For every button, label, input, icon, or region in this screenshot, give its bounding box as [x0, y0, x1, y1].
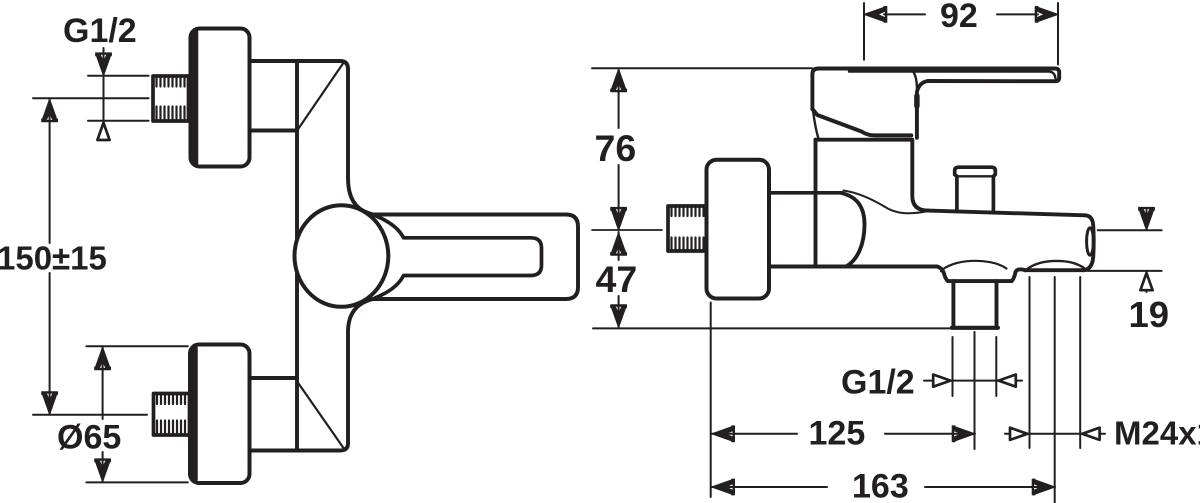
- escutcheon bottom thick left edge: [191, 348, 198, 480]
- lever blade inner line: [849, 72, 1056, 79]
- arrow M24 left (hollow right): [1010, 428, 1027, 440]
- ext lines 19: [1098, 229, 1162, 231]
- wire: body left edge: [295, 61, 299, 451]
- arrow 19 bottom (hollow up): [1140, 273, 1152, 290]
- ext lines M24x1: [1029, 277, 1031, 448]
- svg-text:M24x1: M24x1: [1114, 415, 1200, 452]
- centerline bottom nipple: [33, 414, 147, 416]
- body and handle outline: [250, 61, 579, 451]
- svg-text:Ø65: Ø65: [57, 418, 121, 456]
- lever joint thick blob: [914, 96, 920, 106]
- ext line dia65 top: [86, 345, 187, 347]
- thread hatch side nipple: [672, 208, 704, 250]
- dim 76/47 vertical segments: [618, 70, 620, 128]
- dim line 92: [884, 13, 925, 15]
- arrow G1/2 outlet left (hollow right): [933, 375, 950, 387]
- arrow 19 top (filled down): [1139, 207, 1155, 230]
- handle lever outline: [812, 69, 1059, 138]
- spout end cap: [1083, 215, 1094, 270]
- diverter knob: [955, 167, 996, 210]
- G1/2 dim vertical: [103, 48, 105, 139]
- arrow 47 bottom (filled down): [611, 305, 627, 328]
- ext line 76 top (to handle): [592, 67, 812, 69]
- arrow 150 top (filled, up): [42, 99, 58, 122]
- wire: bottom connector upper line: [250, 376, 298, 380]
- threaded nipple (side): [668, 206, 707, 251]
- svg-text:47: 47: [596, 258, 638, 300]
- svg-text:76: 76: [595, 127, 637, 169]
- bottom reference line y=328: [593, 327, 952, 329]
- escutcheon bottom (left view): [190, 345, 250, 484]
- wire: top connector lower line: [250, 129, 298, 133]
- arrow 150 bottom (filled, down): [42, 392, 58, 415]
- arrow G1/2 down (filled): [96, 53, 112, 76]
- arrow 163 left (filled left): [712, 479, 735, 495]
- arrow G1/2 up (hollow): [97, 123, 109, 140]
- svg-text:150±15: 150±15: [0, 240, 107, 277]
- threaded nipple top (left view): [153, 76, 189, 121]
- dim line 125: [712, 433, 797, 435]
- handle boss circle: [295, 205, 389, 307]
- body column right edge curving into spout top: [912, 140, 928, 211]
- svg-text:G1/2: G1/2: [63, 12, 137, 50]
- arrow 47 top (solid up): [611, 233, 627, 256]
- handle skirt bottom: [812, 109, 911, 135]
- escutcheon top (left view): [191, 29, 250, 167]
- G1/2 outlet nipple bottom edge: [952, 326, 998, 330]
- arrow 92 left (filled): [864, 6, 887, 22]
- arrow 76 bottom (filled down): [611, 207, 627, 230]
- outlet flange line: [948, 279, 1011, 283]
- lever joint small arc: [914, 73, 917, 89]
- thread hatch top nipple: [157, 78, 185, 119]
- arrow dia65 up (filled): [95, 347, 111, 370]
- aerator recess thin arc: [1027, 261, 1084, 270]
- body column top edge: [816, 138, 912, 142]
- body column left edge: [814, 140, 818, 267]
- arrow 92 right (filled): [1035, 6, 1058, 22]
- centerline top nipple: [33, 97, 149, 99]
- outlet bump thin arc: [941, 261, 1007, 271]
- ext line outlet centerline: [974, 332, 976, 449]
- cartridge dome (D-curve): [842, 193, 865, 266]
- connector/body bottom line: [769, 265, 937, 269]
- connector line top (escutcheon to body): [769, 191, 842, 195]
- dim 19 vertical: [1146, 210, 1148, 230]
- ext lines G1/2 outlet: [952, 337, 954, 396]
- centerline stub left of nipple: [592, 229, 662, 231]
- threaded nipple bottom (left view): [154, 394, 190, 436]
- arrow 163 right (filled right): [1032, 479, 1055, 495]
- arrow 125 right (filled right): [952, 426, 975, 442]
- wire: bottom diagonal: [298, 382, 344, 448]
- svg-text:92: 92: [940, 0, 978, 35]
- aerator recess baseline: [1025, 268, 1084, 272]
- escutcheon top thick left edge: [192, 32, 199, 164]
- diverter knob seam: [958, 175, 994, 177]
- ext line 92 left: [863, 3, 865, 60]
- arrow 125 left (filled left): [712, 426, 735, 442]
- arrow G1/2 outlet right (hollow left): [999, 375, 1016, 387]
- ext line G1/2 top: [88, 75, 149, 77]
- dim line M24x1: [1005, 433, 1105, 435]
- thin transition S-curve: [844, 191, 927, 214]
- escutcheon (side): [707, 160, 770, 299]
- svg-text:G1/2: G1/2: [841, 363, 915, 401]
- svg-text:19: 19: [1129, 294, 1170, 335]
- arrow 76 top (filled up): [611, 69, 627, 92]
- arrow dia65 down (filled): [95, 459, 111, 482]
- outlet transition hook left: [937, 267, 948, 282]
- dia65 dim vertical segments: [102, 347, 104, 419]
- ext line dia65 bottom: [86, 481, 187, 483]
- dim line 163: [712, 486, 827, 488]
- dim line G1/2 right view: [924, 380, 1022, 382]
- handle inner slot line: [375, 216, 542, 299]
- G1/2 outlet nipple sides: [951, 281, 955, 326]
- outlet transition hook right: [1011, 269, 1025, 281]
- svg-text:163: 163: [852, 467, 909, 503]
- svg-text:125: 125: [809, 414, 866, 452]
- dim 150 vertical bottom segment: [49, 273, 51, 414]
- dim 150 vertical top segment: [49, 99, 51, 243]
- ext line G1/2 bottom: [88, 120, 149, 122]
- wire: top diagonal: [298, 62, 345, 130]
- arrow M24 right (hollow left): [1082, 428, 1099, 440]
- handle far edge thin curve: [813, 112, 819, 140]
- thread hatch bottom nipple: [157, 396, 185, 434]
- aerator ellipse at spout tip: [1087, 228, 1094, 255]
- spout top edge: [928, 211, 1085, 216]
- ext line 92 right: [1057, 3, 1059, 65]
- wall extension line: [710, 303, 712, 498]
